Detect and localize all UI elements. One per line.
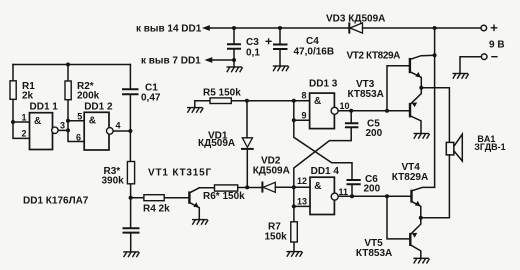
svg-text:2k: 2k xyxy=(22,90,34,101)
svg-text:ЗГДВ-1: ЗГДВ-1 xyxy=(474,142,505,152)
svg-text:200k: 200k xyxy=(77,90,100,101)
svg-text:8: 8 xyxy=(302,91,307,101)
svg-text:11: 11 xyxy=(339,187,349,197)
svg-text:к выв 14 DD1: к выв 14 DD1 xyxy=(136,23,202,34)
svg-text:КТ853А: КТ853А xyxy=(356,248,392,259)
svg-text:C3: C3 xyxy=(246,37,259,48)
svg-text:КД509А: КД509А xyxy=(198,138,235,149)
svg-text:&: & xyxy=(314,181,321,192)
svg-text:0,47: 0,47 xyxy=(141,92,161,103)
svg-text:5: 5 xyxy=(77,111,82,121)
svg-text:DD1 1: DD1 1 xyxy=(30,102,59,113)
svg-text:0,1: 0,1 xyxy=(246,48,260,59)
svg-text:&: & xyxy=(314,96,321,107)
svg-text:47,0/16В: 47,0/16В xyxy=(294,47,335,58)
svg-text:&: & xyxy=(89,116,96,127)
svg-text:VD3 КД509А: VD3 КД509А xyxy=(326,14,385,25)
svg-text:12: 12 xyxy=(297,176,307,186)
svg-text:200: 200 xyxy=(364,184,381,195)
svg-text:390k: 390k xyxy=(102,175,125,186)
svg-text:2: 2 xyxy=(22,129,27,139)
svg-text:&: & xyxy=(34,116,41,127)
svg-text:DD1 4: DD1 4 xyxy=(311,166,340,177)
svg-text:4: 4 xyxy=(116,121,121,131)
svg-text:VT2 КТ829А: VT2 КТ829А xyxy=(347,50,401,61)
svg-text:R5 150k: R5 150k xyxy=(203,88,241,99)
svg-text:DD1 2: DD1 2 xyxy=(84,102,113,113)
svg-text:C4: C4 xyxy=(306,36,319,47)
svg-text:DD1 3: DD1 3 xyxy=(309,79,338,90)
svg-text:1: 1 xyxy=(22,113,27,123)
svg-text:150k: 150k xyxy=(265,231,288,242)
svg-text:R4 2k: R4 2k xyxy=(143,204,170,215)
svg-text:200: 200 xyxy=(366,128,383,139)
svg-text:13: 13 xyxy=(297,196,307,206)
svg-text:R6* 150k: R6* 150k xyxy=(203,191,245,202)
svg-text:КТ853А: КТ853А xyxy=(348,89,384,100)
svg-text:9: 9 xyxy=(302,110,307,120)
svg-text:VT1 КТ315Г: VT1 КТ315Г xyxy=(148,168,212,179)
svg-text:КД509А: КД509А xyxy=(253,165,290,176)
svg-text:9 В: 9 В xyxy=(489,40,505,51)
svg-text:КТ829А: КТ829А xyxy=(392,172,428,183)
svg-text:DD1 К176ЛА7: DD1 К176ЛА7 xyxy=(23,195,89,206)
svg-text:3: 3 xyxy=(60,121,65,131)
svg-text:10: 10 xyxy=(340,101,350,111)
svg-text:6: 6 xyxy=(76,132,81,142)
svg-text:к выв 7 DD1: к выв 7 DD1 xyxy=(141,55,201,66)
